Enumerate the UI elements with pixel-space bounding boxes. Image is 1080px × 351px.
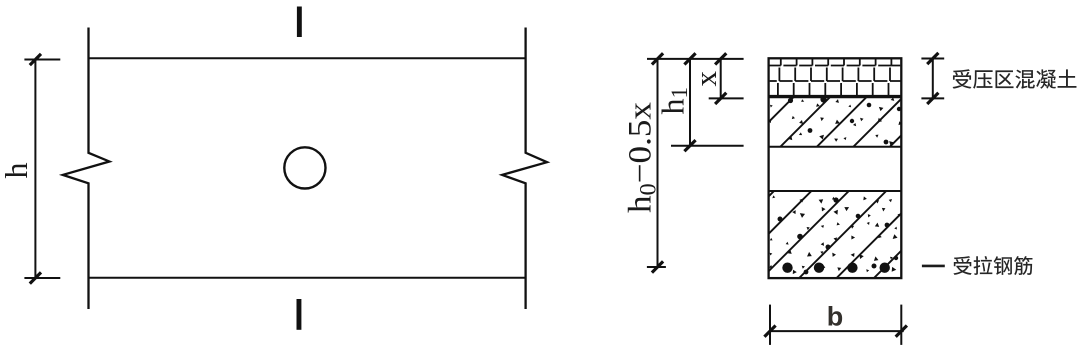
slash tick h0 top <box>652 53 663 64</box>
svg-text:x: x <box>688 71 723 87</box>
beam bottom edge <box>89 277 526 279</box>
b right extension line <box>900 305 902 345</box>
dimension line x (vertical) <box>720 59 722 99</box>
dimension line h0-0.5x (vertical) <box>657 59 659 267</box>
beam top edge <box>89 57 526 59</box>
bracket top tick <box>921 58 944 60</box>
slash tick h1 bottom <box>684 140 695 151</box>
dimension line h1 (vertical) <box>689 59 691 146</box>
b right slash <box>896 326 907 337</box>
beam left side wire with break symbol <box>63 28 110 310</box>
aggregate dots in upper hatch band <box>769 96 903 145</box>
svg-text:h0−0.5x: h0−0.5x <box>623 101 661 213</box>
dimension h bottom extension tick <box>24 277 60 279</box>
thick line under compression grid band <box>769 95 902 98</box>
b left slash <box>764 326 775 337</box>
b left extension line <box>769 305 771 345</box>
compression zone dimension bracket line <box>932 59 934 99</box>
bracket bottom tick <box>921 97 944 99</box>
line under upper hatch band <box>769 146 902 148</box>
dimension line b (horizontal) <box>769 330 904 332</box>
beam right side wire with break symbol <box>502 28 547 310</box>
bracket top slash <box>927 53 938 64</box>
section cut mark I (bottom) <box>297 299 302 330</box>
leader dash for rebar label <box>922 265 945 268</box>
svg-text:b: b <box>827 302 844 332</box>
dimension h0-0.5x bottom extension tick <box>647 266 666 268</box>
label 受压区混凝土 (compression zone concrete) <box>953 69 1077 89</box>
svg-text:h: h <box>0 163 34 179</box>
slash tick h1 top <box>684 53 695 64</box>
dimension h1 bottom extension line <box>671 145 744 147</box>
line above lower hatch band <box>769 190 902 192</box>
label 受拉钢筋 (tension rebar) <box>953 256 1032 275</box>
dimension h top slash tick <box>30 54 41 65</box>
tension rebar circles <box>782 263 890 273</box>
slash tick x bottom <box>715 93 726 104</box>
slash tick h0 bottom <box>652 261 663 272</box>
cross-section outline rect <box>769 58 902 278</box>
bracket bottom slash <box>927 93 938 104</box>
slash tick x top <box>715 53 726 64</box>
aggregate dots in lower hatch band <box>769 195 902 274</box>
circle symbol at beam center <box>284 147 325 188</box>
section cut mark I (top) <box>297 7 302 38</box>
dimension line h (vertical) <box>34 60 36 279</box>
dimension h top extension tick <box>24 59 60 61</box>
dimension x bottom extension line <box>709 97 744 99</box>
top extension line of dimensions <box>647 58 744 60</box>
dimension h bottom slash tick <box>30 272 41 283</box>
